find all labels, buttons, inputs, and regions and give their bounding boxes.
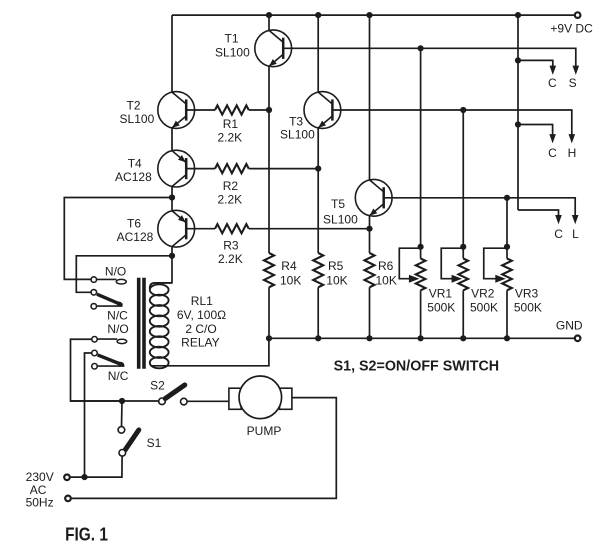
node C1 junction xyxy=(515,57,521,63)
wire T3 emitter xyxy=(317,128,319,169)
svg-text:SL100: SL100 xyxy=(215,45,250,59)
wire rail to T2 collector xyxy=(171,15,173,92)
potentiometer VR1 xyxy=(416,259,426,291)
transistor T3 xyxy=(304,92,341,129)
resistor R2 xyxy=(215,164,249,173)
wire N/O 2 to S2 line xyxy=(71,339,120,401)
wiper arrow VR2 xyxy=(452,275,463,283)
wire T5 emitter xyxy=(369,216,371,229)
resistor R1 xyxy=(215,105,249,114)
svg-text:50Hz: 50Hz xyxy=(26,495,54,509)
wire feed to VR1 xyxy=(420,48,422,247)
wire R6 to ground xyxy=(369,287,371,338)
svg-text:500K: 500K xyxy=(470,300,498,314)
svg-text:SL100: SL100 xyxy=(323,213,358,227)
node H-line VR2 junction xyxy=(460,107,466,113)
relay coil RL1 xyxy=(150,283,172,289)
node S-line VR1 junction xyxy=(418,45,424,51)
wire VR1 top lead xyxy=(420,247,422,259)
node T5 emitter junction xyxy=(366,226,372,232)
wire R3 to T5 emitter xyxy=(249,228,370,230)
svg-text:RELAY: RELAY xyxy=(181,335,219,349)
probe H arrow xyxy=(569,134,576,143)
wire relay coil to ground rail xyxy=(152,338,269,366)
wire VR1 bottom lead xyxy=(420,290,422,338)
probe C3 arrow xyxy=(555,215,562,224)
wire pole 2 to mains xyxy=(85,353,92,477)
wire T2 emitter to T4 emitter xyxy=(171,128,173,150)
wire T6 node to pole 1 xyxy=(76,256,172,292)
contact N/O 1 xyxy=(91,277,97,283)
node VR3 ground junction xyxy=(504,335,510,341)
node VR1 ground junction xyxy=(418,335,424,341)
wire T1 emitter xyxy=(268,66,270,110)
contact pole 2 xyxy=(92,350,98,356)
svg-text:10K: 10K xyxy=(376,274,397,288)
wire T5emitter-R6 column xyxy=(369,229,371,253)
svg-text:PUMP: PUMP xyxy=(247,424,282,438)
svg-text:T4: T4 xyxy=(128,157,142,171)
svg-text:C: C xyxy=(548,146,557,160)
terminal mains neutral xyxy=(65,496,71,502)
svg-text:T5: T5 xyxy=(331,197,345,211)
potentiometer VR3 xyxy=(502,259,512,291)
svg-text:S1, S2=ON/OFF SWITCH: S1, S2=ON/OFF SWITCH xyxy=(334,359,500,375)
wire VR1 wiper link xyxy=(399,248,420,279)
contact N/C 1 xyxy=(91,304,97,310)
resistor R6 xyxy=(365,253,375,287)
wire VR2 wiper link xyxy=(441,248,463,279)
wire S1 to mains live xyxy=(71,456,123,477)
transistor T1 xyxy=(255,30,292,67)
switch S1 xyxy=(118,427,125,434)
contact N/C 2 xyxy=(92,364,98,370)
svg-text:S2: S2 xyxy=(150,379,165,393)
node rail-common junction xyxy=(515,12,521,18)
node VR2 top junction xyxy=(460,244,466,250)
node T1 emitter junction xyxy=(266,107,272,113)
wire junction to S1 xyxy=(121,401,124,427)
svg-text:T2: T2 xyxy=(126,99,140,113)
wire S2 to pump xyxy=(187,400,229,402)
svg-text:6V, 100Ω: 6V, 100Ω xyxy=(177,308,226,322)
wire VR3 bottom lead xyxy=(506,290,508,338)
node L-line VR3 junction xyxy=(504,195,510,201)
wire C1 probe xyxy=(518,60,553,66)
relay core xyxy=(137,278,141,369)
wire junction to N/O contact 1 xyxy=(64,198,172,280)
svg-text:500K: 500K xyxy=(427,300,455,314)
svg-text:+9V DC: +9V DC xyxy=(550,22,593,36)
node VR1 top junction xyxy=(418,244,424,250)
node VR3 top junction xyxy=(504,244,510,250)
wire T1 collector xyxy=(268,15,270,30)
wire T2 base lead xyxy=(186,109,215,111)
probe L arrow xyxy=(572,215,579,224)
svg-text:RL1: RL1 xyxy=(191,294,213,308)
wire R2 to T3 emitter xyxy=(249,168,318,170)
wire R5 to ground xyxy=(317,287,319,338)
node VR2 ground junction xyxy=(460,335,466,341)
svg-text:L: L xyxy=(572,227,579,241)
wire T1emitter-R4 column xyxy=(268,110,270,253)
wire T5 collector xyxy=(369,15,371,179)
wire feed to VR3 xyxy=(506,198,508,247)
node T3 emitter junction xyxy=(315,166,321,172)
wire VR2 top lead xyxy=(462,247,464,259)
wire C3 probe xyxy=(518,210,559,216)
svg-text:N/C: N/C xyxy=(108,369,129,383)
node R5 ground junction xyxy=(315,335,321,341)
potentiometer VR2 xyxy=(458,259,468,291)
wire T6 collector to relay coil xyxy=(171,256,173,284)
svg-text:S: S xyxy=(569,76,577,90)
node R4 ground junction xyxy=(266,335,272,341)
node C2 junction xyxy=(515,121,521,127)
wire junction to T6 emitter xyxy=(171,198,173,211)
svg-text:VR2: VR2 xyxy=(471,287,495,301)
contact N/O 2 xyxy=(92,337,98,343)
svg-text:R3: R3 xyxy=(223,238,239,252)
wire T5 base to L probe xyxy=(384,198,576,216)
node T4-T6 junction xyxy=(169,194,175,200)
terminal mains live xyxy=(64,475,70,481)
armature pole 2 xyxy=(98,355,122,365)
wire T6 collector xyxy=(171,247,173,256)
svg-text:2.2K: 2.2K xyxy=(217,131,242,145)
node mains junction xyxy=(81,474,87,480)
wire R1 to T1 emitter xyxy=(249,109,269,111)
wire +9V supply rail xyxy=(172,14,574,16)
transistor T6 xyxy=(158,210,195,247)
terminal GND xyxy=(575,336,581,342)
wire feed to VR2 xyxy=(462,110,464,247)
wire common probe column xyxy=(517,15,519,210)
probe C1 arrow xyxy=(550,66,557,75)
wire VR3 wiper link xyxy=(484,248,507,279)
wire mains neutral to pump xyxy=(72,398,337,499)
svg-text:10K: 10K xyxy=(326,274,347,288)
wiper arrow VR1 xyxy=(409,275,420,283)
armature pole 1 xyxy=(97,294,121,304)
svg-text:T3: T3 xyxy=(289,114,303,128)
resistor R5 xyxy=(313,253,323,287)
pump motor xyxy=(239,376,282,419)
svg-text:R4: R4 xyxy=(281,259,297,273)
svg-text:FIG. 1: FIG. 1 xyxy=(65,524,108,545)
node R6 ground junction xyxy=(366,335,372,341)
wire T4 collector xyxy=(171,187,173,198)
wire T3 base to H probe xyxy=(332,110,571,135)
svg-text:10K: 10K xyxy=(280,274,301,288)
svg-text:R6: R6 xyxy=(378,259,394,273)
svg-text:AC128: AC128 xyxy=(115,170,152,184)
node rail-T3 junction xyxy=(315,12,321,18)
transistor T5 xyxy=(355,179,392,216)
node rail-T1 junction xyxy=(266,12,272,18)
wire S2 line xyxy=(71,400,159,402)
wire R4 to ground xyxy=(268,287,270,338)
svg-text:C: C xyxy=(554,227,563,241)
svg-text:2 C/O: 2 C/O xyxy=(185,322,216,336)
svg-text:R5: R5 xyxy=(328,259,344,273)
contact pole 1 xyxy=(91,290,97,296)
svg-text:VR1: VR1 xyxy=(429,287,453,301)
svg-text:H: H xyxy=(568,146,577,160)
pump brushes xyxy=(229,388,241,409)
wire T4 base lead xyxy=(186,168,215,170)
wire T6 base lead xyxy=(186,228,215,230)
wire C2 probe xyxy=(518,125,553,135)
svg-text:GND: GND xyxy=(556,318,583,332)
node T6 collector junction xyxy=(169,253,175,259)
wire VR3 top lead xyxy=(506,247,508,259)
terminal +9V DC xyxy=(575,12,581,18)
wire VR2 bottom lead xyxy=(462,290,464,338)
svg-text:AC128: AC128 xyxy=(117,230,154,244)
transistor T2 xyxy=(158,92,195,129)
svg-text:T6: T6 xyxy=(127,216,141,230)
svg-text:500K: 500K xyxy=(514,300,542,314)
svg-text:T1: T1 xyxy=(224,31,238,45)
svg-text:R2: R2 xyxy=(223,179,239,193)
svg-text:SL100: SL100 xyxy=(120,112,155,126)
switch S2 xyxy=(159,398,166,405)
svg-text:VR3: VR3 xyxy=(515,287,539,301)
svg-text:N/O: N/O xyxy=(105,265,126,279)
svg-text:S1: S1 xyxy=(147,436,162,450)
wire T3emitter-R5 column xyxy=(317,169,319,253)
wire ground rail xyxy=(269,337,574,339)
node rail-T5 junction xyxy=(366,12,372,18)
svg-text:R1: R1 xyxy=(223,117,239,131)
wire T3 collector xyxy=(317,15,319,92)
resistor R4 xyxy=(264,253,274,287)
svg-text:2.2K: 2.2K xyxy=(217,192,242,206)
probe S arrow xyxy=(573,66,580,75)
svg-text:N/C: N/C xyxy=(107,308,128,322)
wiper arrow VR3 xyxy=(495,275,506,283)
transistor T4 xyxy=(158,150,195,187)
node S2-S1 junction xyxy=(119,398,125,404)
svg-text:N/O: N/O xyxy=(107,322,128,336)
svg-text:2.2K: 2.2K xyxy=(218,252,243,266)
svg-text:SL100: SL100 xyxy=(280,127,315,141)
resistor R3 xyxy=(215,224,249,233)
probe C2 arrow xyxy=(549,134,556,143)
wire T1 base to S probe xyxy=(283,48,576,66)
svg-text:C: C xyxy=(548,76,557,90)
